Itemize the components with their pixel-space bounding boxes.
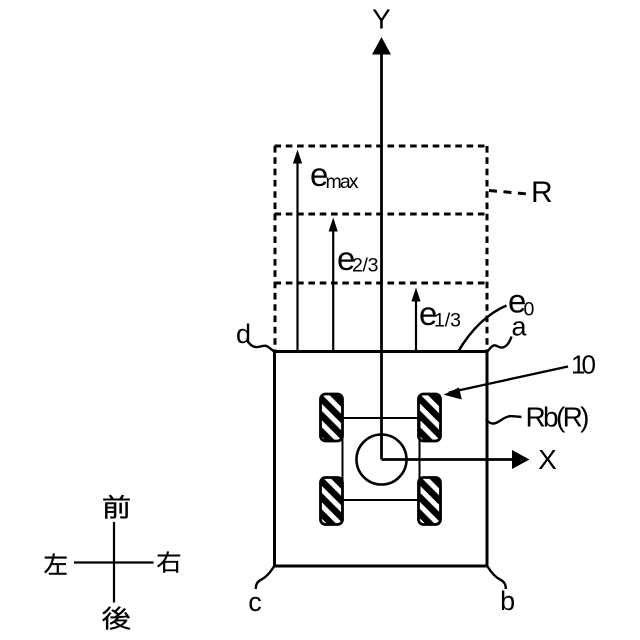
X axis line: [382, 458, 516, 461]
svg-text:b: b: [500, 586, 515, 616]
arrow e_max: [296, 162, 298, 352]
wavy leader for Rb(R): [486, 416, 522, 423]
wheel front-right: [419, 394, 441, 441]
svg-text:max: max: [326, 171, 359, 193]
svg-text:1/3: 1/3: [434, 310, 461, 332]
corner leader d: [247, 340, 274, 352]
svg-text:10: 10: [571, 350, 596, 380]
corner leader b: [488, 567, 506, 590]
compass label left (hidari): [45, 554, 67, 575]
svg-text:a: a: [511, 312, 527, 342]
dashed leader to R: [489, 191, 528, 195]
compass vertical line: [113, 522, 115, 603]
wheel front-left: [321, 394, 343, 441]
arrow e_1/3: [415, 300, 417, 352]
svg-text:Rb(R): Rb(R): [526, 402, 590, 433]
svg-text:c: c: [248, 587, 262, 617]
compass horizontal line: [74, 561, 154, 563]
wheel rear-right: [419, 478, 441, 525]
region R dashed right edge: [486, 146, 489, 351]
svg-text:d: d: [236, 319, 251, 349]
corner leader a: [488, 337, 512, 352]
Y axis line: [380, 50, 383, 460]
svg-text:X: X: [538, 444, 557, 475]
compass label rear (ushiro): [102, 606, 129, 629]
Y axis arrowhead: [372, 37, 391, 55]
compass label front (mae): [104, 495, 130, 519]
X axis arrowhead: [512, 450, 530, 469]
svg-text:2/3: 2/3: [352, 255, 379, 277]
vehicle region box Rb: [275, 352, 488, 567]
compass label right (migi): [157, 552, 179, 573]
corner leader c: [256, 567, 274, 590]
region R dashed left edge: [274, 146, 277, 351]
vehicle center circle 10: [357, 435, 407, 485]
region R dashed top edge: [275, 145, 489, 148]
wheel rear-left: [321, 478, 343, 525]
svg-text:Y: Y: [372, 4, 391, 35]
leader arrow for 10: [449, 367, 568, 393]
arrow e_2/3: [332, 230, 334, 352]
axle frame rectangle: [343, 418, 420, 500]
dashed level line e1/3: [275, 282, 489, 285]
svg-text:R: R: [531, 176, 553, 209]
dashed level line e2/3: [275, 213, 489, 216]
leader curve for e_0: [459, 306, 507, 352]
